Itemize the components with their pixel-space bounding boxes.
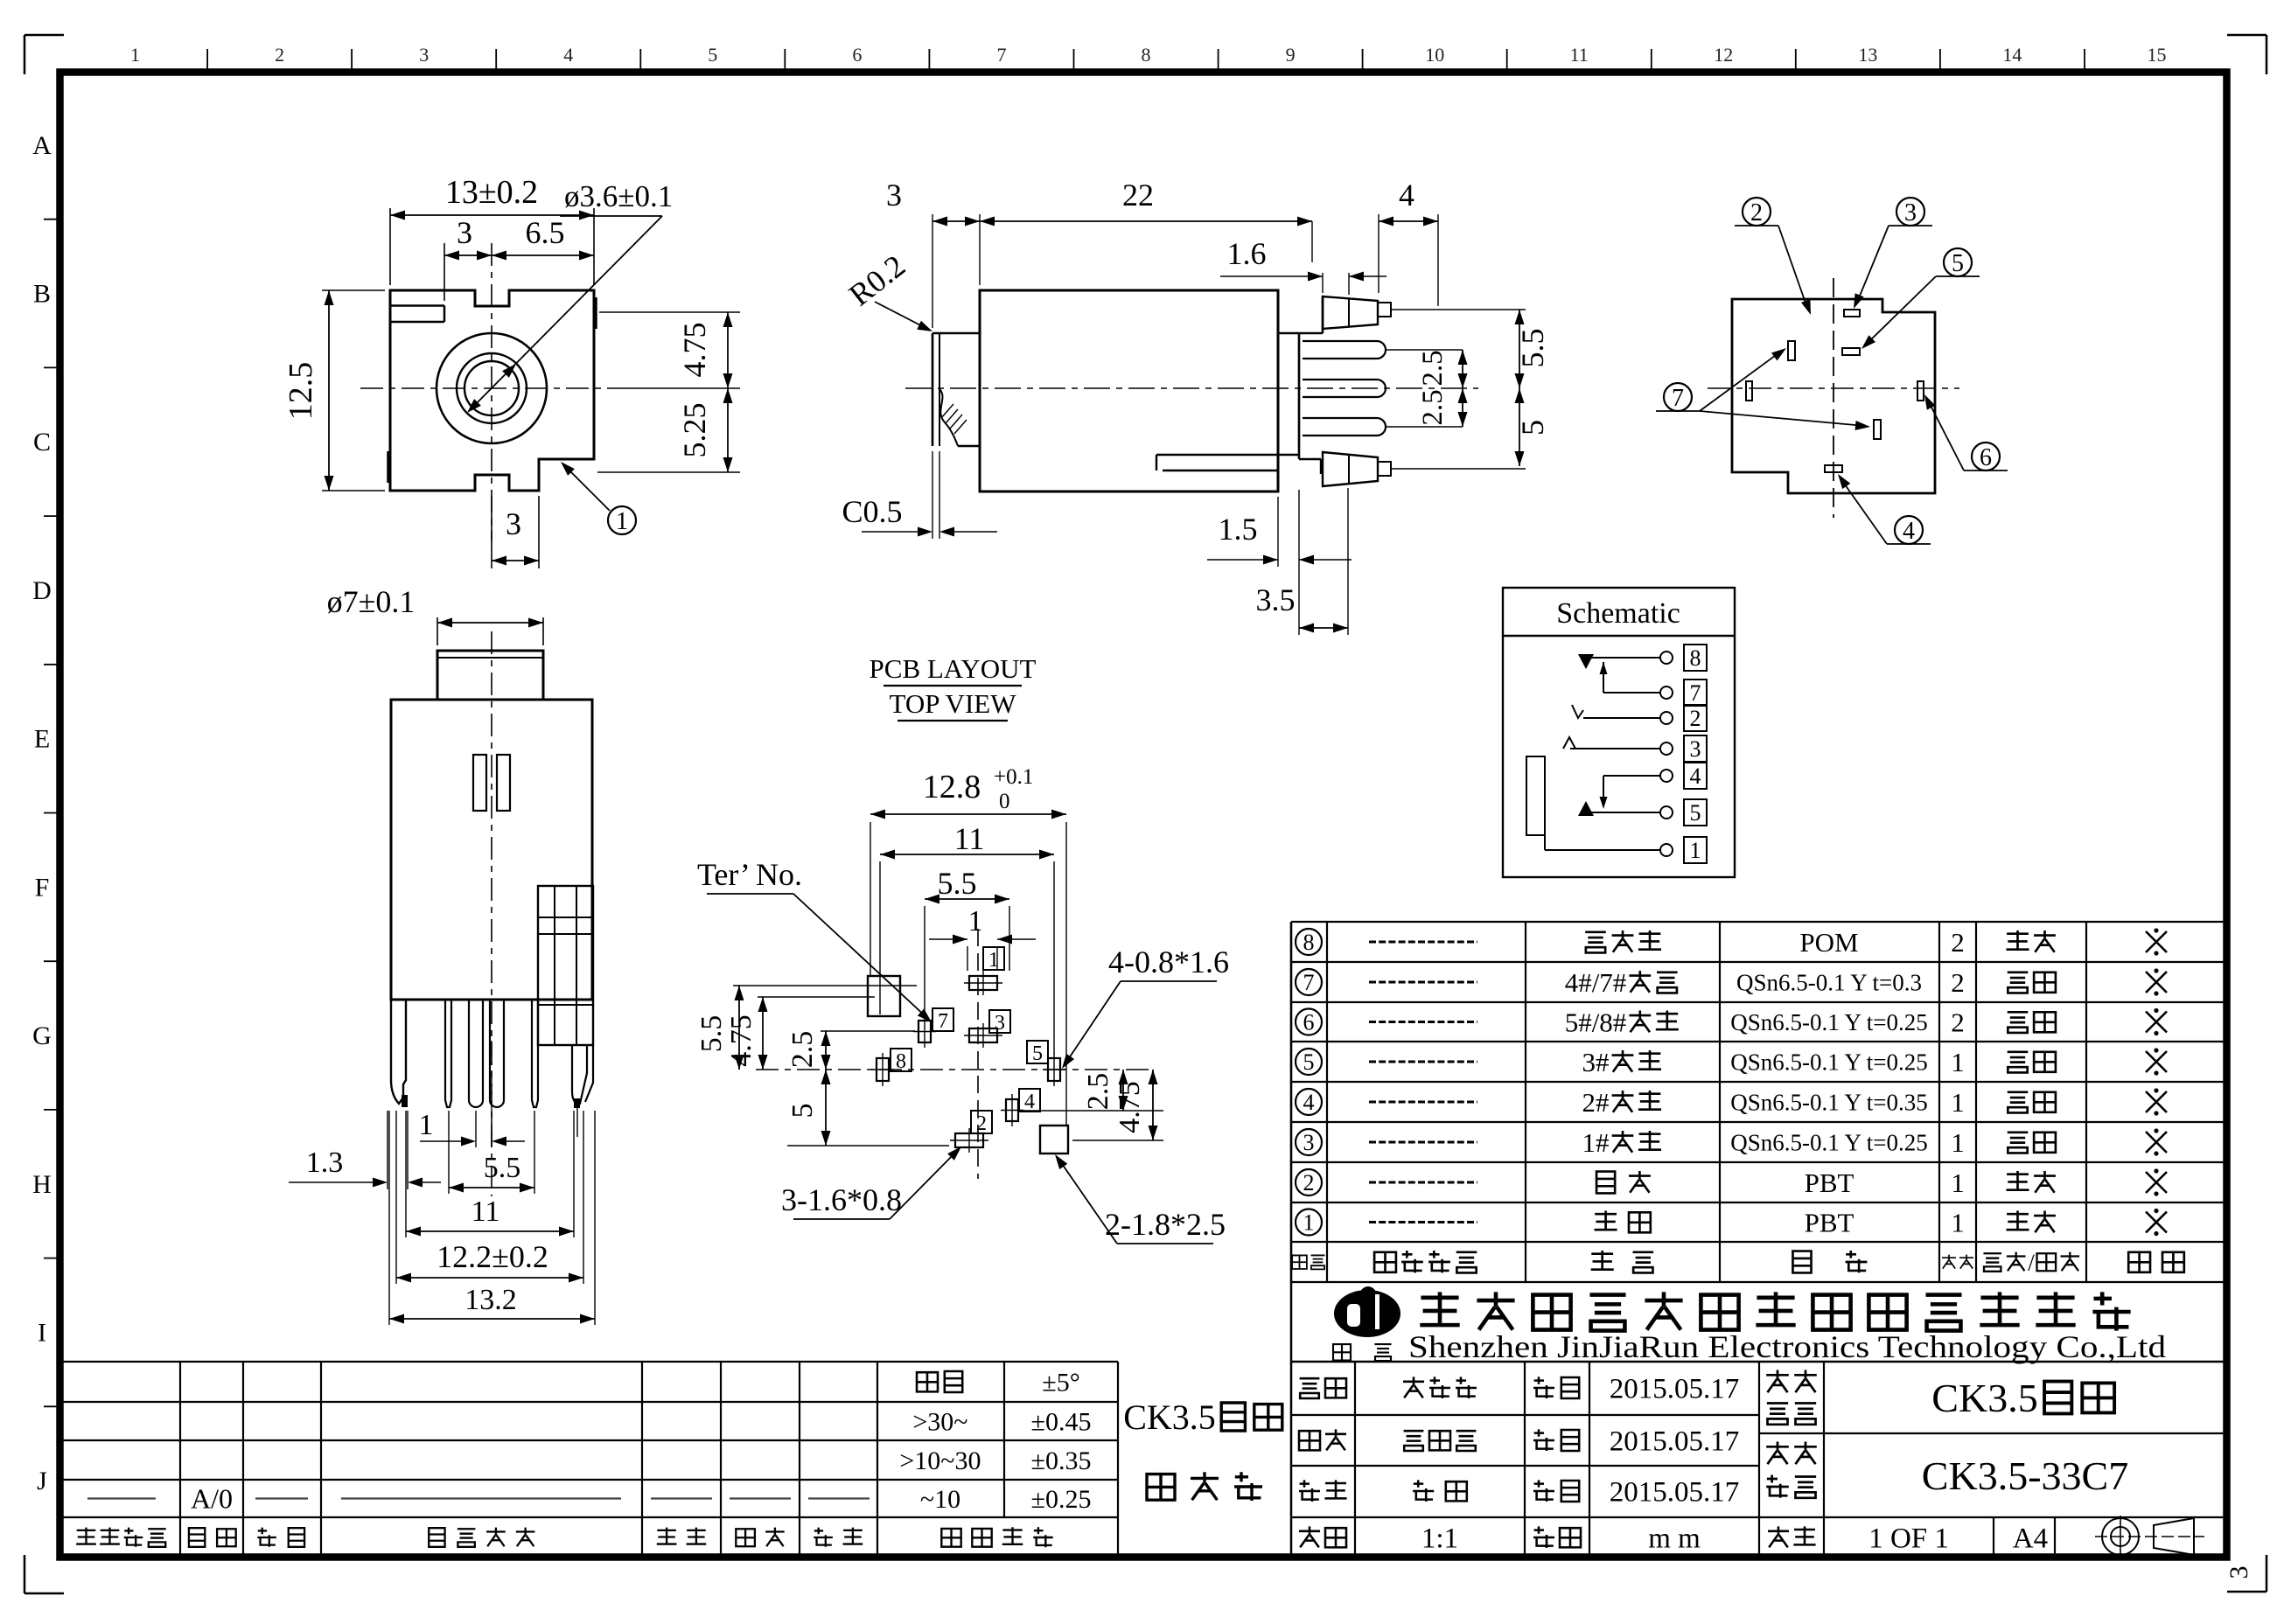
svg-text:5: 5 xyxy=(1515,420,1550,436)
svg-text:3: 3 xyxy=(506,506,521,541)
svg-text:D: D xyxy=(32,576,52,605)
svg-text:5: 5 xyxy=(1690,800,1701,826)
svg-text:2015.05.17: 2015.05.17 xyxy=(1610,1477,1740,1509)
svg-text:1: 1 xyxy=(1951,1047,1965,1077)
svg-text:2.5: 2.5 xyxy=(1417,389,1449,425)
svg-text:5: 5 xyxy=(1032,1042,1043,1065)
svg-text:2#: 2# xyxy=(1582,1087,1610,1118)
svg-text:4: 4 xyxy=(1024,1091,1035,1113)
svg-text:2: 2 xyxy=(1951,967,1965,998)
svg-text:4-0.8*1.6: 4-0.8*1.6 xyxy=(1108,944,1229,979)
svg-text:3: 3 xyxy=(1904,199,1917,227)
svg-text:1: 1 xyxy=(1951,1207,1965,1237)
svg-text:2015.05.17: 2015.05.17 xyxy=(1610,1426,1740,1458)
svg-text:G: G xyxy=(32,1021,52,1050)
svg-text:QSn6.5-0.1 Y t=0.25: QSn6.5-0.1 Y t=0.25 xyxy=(1730,1130,1927,1156)
svg-text:QSn6.5-0.1 Y t=0.35: QSn6.5-0.1 Y t=0.35 xyxy=(1730,1090,1927,1116)
svg-text:8: 8 xyxy=(1303,930,1315,955)
svg-text:5.5: 5.5 xyxy=(695,1015,728,1053)
svg-text:ø3.6±0.1: ø3.6±0.1 xyxy=(564,179,673,213)
svg-text:3: 3 xyxy=(1690,736,1701,762)
svg-text:A/0: A/0 xyxy=(191,1483,233,1515)
svg-text:I: I xyxy=(38,1318,46,1347)
svg-text:1.5: 1.5 xyxy=(1219,512,1258,547)
svg-text:Ter’ No.: Ter’ No. xyxy=(697,857,802,892)
svg-text:4: 4 xyxy=(1903,518,1915,545)
svg-text:E: E xyxy=(34,725,50,754)
svg-text:A: A xyxy=(32,131,52,160)
svg-text:5: 5 xyxy=(1303,1049,1315,1075)
svg-text:C0.5: C0.5 xyxy=(842,494,902,529)
svg-text:CK3.5: CK3.5 xyxy=(1931,1376,2037,1420)
svg-text:QSn6.5-0.1 Y t=0.3: QSn6.5-0.1 Y t=0.3 xyxy=(1736,970,1922,996)
svg-text:13.2: 13.2 xyxy=(464,1284,517,1316)
svg-text:F: F xyxy=(35,873,50,902)
svg-text:7: 7 xyxy=(997,44,1007,66)
svg-text:11: 11 xyxy=(471,1195,500,1228)
svg-text:12.5: 12.5 xyxy=(283,362,319,421)
svg-text:12.8: 12.8 xyxy=(923,769,981,805)
svg-text:±0.35: ±0.35 xyxy=(1031,1446,1092,1475)
svg-text:4: 4 xyxy=(1690,763,1701,789)
svg-text:3-1.6*0.8: 3-1.6*0.8 xyxy=(781,1182,902,1217)
svg-text:B: B xyxy=(33,280,51,309)
svg-text:TOP VIEW: TOP VIEW xyxy=(890,688,1017,719)
svg-text:10: 10 xyxy=(1425,44,1444,66)
svg-text:3: 3 xyxy=(2225,1566,2253,1579)
svg-text:2.5: 2.5 xyxy=(1082,1073,1114,1111)
svg-text:4: 4 xyxy=(563,44,573,66)
svg-text:/: / xyxy=(2028,1250,2035,1276)
svg-text:2.5: 2.5 xyxy=(786,1031,819,1069)
svg-text:0: 0 xyxy=(999,790,1010,813)
svg-text:QSn6.5-0.1 Y t=0.25: QSn6.5-0.1 Y t=0.25 xyxy=(1730,1049,1927,1076)
svg-text:12.2±0.2: 12.2±0.2 xyxy=(437,1239,548,1274)
svg-text:3: 3 xyxy=(457,215,472,250)
svg-text:J: J xyxy=(37,1467,47,1495)
svg-text:6: 6 xyxy=(852,44,862,66)
svg-text:6: 6 xyxy=(1303,1010,1315,1035)
svg-text:Shenzhen JinJiaRun Electronics: Shenzhen JinJiaRun Electronics Technolog… xyxy=(1408,1329,2166,1364)
svg-text:9: 9 xyxy=(1286,44,1296,66)
svg-text:4.75: 4.75 xyxy=(677,323,712,378)
svg-text:2: 2 xyxy=(1303,1170,1315,1195)
svg-text:m m: m m xyxy=(1648,1523,1701,1555)
svg-text:2.5: 2.5 xyxy=(1417,350,1449,386)
svg-text:1.6: 1.6 xyxy=(1227,236,1267,271)
svg-text:1: 1 xyxy=(1690,838,1701,863)
svg-text:C: C xyxy=(33,428,51,457)
svg-text:8: 8 xyxy=(1690,645,1701,671)
svg-text:2: 2 xyxy=(275,44,284,66)
svg-text:5: 5 xyxy=(1952,250,1964,277)
svg-text:3.5: 3.5 xyxy=(1256,582,1296,617)
svg-text:14: 14 xyxy=(2002,44,2022,66)
svg-text:22: 22 xyxy=(1122,178,1154,213)
svg-text:5.25: 5.25 xyxy=(677,403,712,458)
svg-text:±0.25: ±0.25 xyxy=(1031,1485,1092,1514)
svg-text:2-1.8*2.5: 2-1.8*2.5 xyxy=(1105,1207,1226,1242)
svg-text:4.75: 4.75 xyxy=(1114,1081,1146,1133)
svg-text:15: 15 xyxy=(2148,44,2167,66)
svg-text:8: 8 xyxy=(1142,44,1151,66)
svg-text:6.5: 6.5 xyxy=(526,215,565,250)
svg-text:2015.05.17: 2015.05.17 xyxy=(1610,1374,1740,1405)
svg-text:1: 1 xyxy=(1951,1167,1965,1198)
svg-text:1: 1 xyxy=(1951,1087,1965,1118)
svg-text:5.5: 5.5 xyxy=(938,866,977,901)
svg-text:1: 1 xyxy=(616,508,628,535)
svg-text:2: 2 xyxy=(1750,199,1763,227)
svg-text:±0.45: ±0.45 xyxy=(1031,1408,1092,1437)
svg-text:1: 1 xyxy=(130,44,140,66)
svg-text:7: 7 xyxy=(1690,680,1701,706)
svg-text:>10~30: >10~30 xyxy=(899,1446,981,1475)
svg-text:11: 11 xyxy=(954,821,985,856)
svg-text:2: 2 xyxy=(1951,1007,1965,1037)
svg-text:Schematic: Schematic xyxy=(1556,597,1680,630)
svg-text:13: 13 xyxy=(1858,44,1877,66)
svg-text:~10: ~10 xyxy=(920,1485,960,1514)
svg-text:1: 1 xyxy=(1303,1210,1315,1236)
svg-text:±5°: ±5° xyxy=(1042,1369,1079,1397)
svg-text:PCB LAYOUT: PCB LAYOUT xyxy=(870,653,1037,684)
svg-text:H: H xyxy=(32,1170,52,1199)
svg-text:ø7±0.1: ø7±0.1 xyxy=(327,584,416,619)
svg-text:3: 3 xyxy=(995,1012,1005,1035)
svg-text:5: 5 xyxy=(786,1104,819,1119)
svg-text:3: 3 xyxy=(419,44,429,66)
svg-text:2: 2 xyxy=(1951,927,1965,958)
svg-text:5: 5 xyxy=(708,44,717,66)
svg-text:7: 7 xyxy=(938,1010,948,1033)
svg-text:5.5: 5.5 xyxy=(484,1152,521,1184)
svg-text:1#: 1# xyxy=(1582,1127,1610,1158)
svg-text:POM: POM xyxy=(1799,927,1858,958)
svg-text:5.5: 5.5 xyxy=(1515,329,1550,368)
svg-text:6: 6 xyxy=(1980,444,1992,471)
svg-text:4#/7#: 4#/7# xyxy=(1565,967,1627,998)
svg-text:QSn6.5-0.1 Y t=0.25: QSn6.5-0.1 Y t=0.25 xyxy=(1730,1009,1927,1035)
svg-text:CK3.5-33C7: CK3.5-33C7 xyxy=(1922,1453,2128,1498)
svg-text:4: 4 xyxy=(1399,178,1414,213)
svg-text:1:1: 1:1 xyxy=(1421,1523,1458,1555)
svg-text:+0.1: +0.1 xyxy=(994,765,1033,789)
svg-text:4.75: 4.75 xyxy=(725,1014,758,1067)
svg-text:1.3: 1.3 xyxy=(306,1147,344,1179)
svg-text:PBT: PBT xyxy=(1805,1167,1854,1198)
svg-text:7: 7 xyxy=(1303,970,1315,995)
svg-text:1 OF 1: 1 OF 1 xyxy=(1868,1523,1949,1555)
svg-text:>30~: >30~ xyxy=(912,1408,967,1437)
svg-text:11: 11 xyxy=(1570,44,1589,66)
svg-text:5#/8#: 5#/8# xyxy=(1565,1007,1627,1037)
svg-text:3#: 3# xyxy=(1582,1047,1610,1077)
svg-text:A4: A4 xyxy=(2013,1523,2048,1555)
svg-text:PBT: PBT xyxy=(1805,1207,1854,1237)
svg-text:2: 2 xyxy=(1690,706,1701,731)
svg-text:7: 7 xyxy=(1672,385,1684,412)
svg-text:13±0.2: 13±0.2 xyxy=(445,174,538,211)
svg-text:12: 12 xyxy=(1714,44,1733,66)
svg-text:1: 1 xyxy=(968,905,983,937)
svg-text:CK3.5: CK3.5 xyxy=(1123,1397,1216,1437)
svg-text:4: 4 xyxy=(1303,1090,1315,1115)
svg-text:1: 1 xyxy=(1951,1127,1965,1158)
svg-text:3: 3 xyxy=(886,178,902,213)
svg-text:1: 1 xyxy=(419,1109,434,1141)
svg-text:3: 3 xyxy=(1303,1130,1315,1155)
